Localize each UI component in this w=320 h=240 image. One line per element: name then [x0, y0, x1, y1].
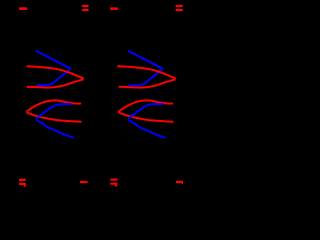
red level bar: top-left single dash — [19, 7, 27, 10]
right panel curves — [118, 51, 175, 138]
red level bar: top single dash (right panel left side) — [110, 7, 118, 9]
red level bar: bottom single dash (right panel right side) — [176, 181, 183, 183]
red level bar: bottom equals with hook (left panel left side) — [19, 179, 26, 181]
red level bar: top equals (left panel right side) — [82, 5, 89, 7]
red level bar: bottom equals with hook (right panel left side) — [110, 179, 117, 181]
red level bar: top equals (right panel right side) — [176, 5, 183, 7]
right panel red start extension — [117, 65, 119, 67]
left panel curves — [26, 51, 83, 138]
red level bar: bottom single dash (left panel right side) — [80, 181, 88, 183]
